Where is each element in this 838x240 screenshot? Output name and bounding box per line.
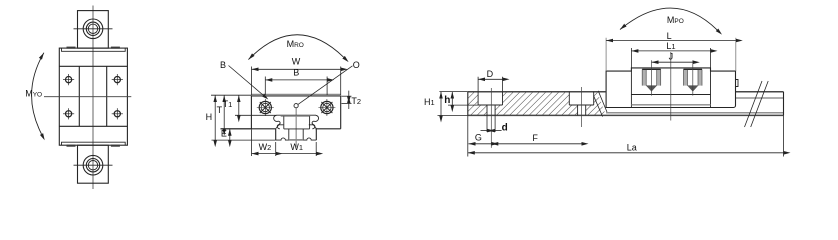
block outline: [251, 96, 340, 129]
L1 dim: [631, 48, 710, 68]
rail lower inner line: [606, 112, 783, 114]
tab bottom hole circles: [83, 155, 103, 175]
end cap boundary right: [710, 71, 712, 107]
rail end tab bottom: [78, 145, 109, 183]
hole 1 centerline: [490, 88, 492, 148]
svg-text:D: D: [487, 69, 494, 79]
svg-text:O: O: [353, 60, 360, 70]
grease nipple: [736, 80, 739, 87]
hole 2 centerline: [581, 87, 583, 127]
hole centerline 1: [651, 60, 653, 95]
leader O: [298, 66, 353, 105]
rail centerline: [295, 108, 297, 148]
rail groove wave left: [274, 115, 280, 129]
svg-text:E: E: [221, 129, 227, 139]
svg-text:B: B: [293, 68, 299, 78]
counterbore hole 1 outline: [478, 92, 502, 116]
tapped hole 2: [684, 69, 703, 91]
tab top crosshair: [74, 28, 113, 30]
mounting bolt hole right: [318, 99, 335, 116]
mounting bolt hole left: [257, 99, 274, 116]
rail left end face: [467, 92, 469, 116]
horizontal centerline: [44, 96, 131, 98]
block bottom right segment: [315, 128, 340, 130]
svg-text:H: H: [206, 112, 213, 122]
G dim: [469, 143, 492, 145]
F dim: [491, 143, 581, 145]
svg-text:F: F: [532, 133, 538, 143]
svg-text:W1: W1: [290, 142, 303, 152]
svg-text:L1: L1: [666, 41, 675, 51]
svg-text:MYO: MYO: [25, 89, 42, 99]
Mpo moment arc: [620, 8, 717, 30]
block bottom left segment: [221, 128, 276, 130]
rail end tab top: [78, 11, 109, 49]
bolt hole A: [63, 74, 74, 85]
rail edge right: [106, 66, 108, 126]
Mro moment arc: [248, 35, 343, 60]
La dim: [468, 116, 784, 157]
end plate line top: [59, 65, 127, 67]
leader B with arrow: [229, 66, 264, 96]
block top edge thick: [251, 93, 340, 95]
rail right end face: [783, 92, 785, 116]
rail bottom edge: [468, 114, 784, 116]
B dim: [265, 77, 327, 96]
rail edge left: [78, 66, 80, 126]
W dim: [252, 67, 341, 96]
bolt hole D: [112, 108, 123, 119]
svg-text:h: h: [444, 95, 450, 106]
rail top surface line: [276, 114, 316, 116]
block inner top line: [62, 48, 126, 51]
T dim: [223, 95, 225, 129]
svg-text:G: G: [475, 133, 482, 143]
L dim: [606, 38, 736, 71]
svg-text:W: W: [292, 56, 301, 66]
svg-text:L: L: [667, 31, 672, 41]
rail bottom line with notches: [276, 138, 317, 140]
svg-text:d: d: [502, 122, 508, 133]
T1 dim: [238, 95, 240, 115]
rail base left edge: [275, 129, 277, 141]
counterbore hole in section: [284, 116, 310, 129]
H dim: [214, 95, 216, 140]
svg-text:MRO: MRO: [287, 39, 304, 49]
body lower line: [631, 94, 710, 96]
Myo moment arc: [32, 53, 44, 134]
tapped hole 1: [642, 69, 661, 91]
d dim: [481, 115, 502, 132]
D dim: [478, 77, 502, 92]
svg-text:J: J: [669, 52, 674, 62]
bolt hole C: [63, 108, 74, 119]
tab bottom crosshair: [74, 164, 113, 166]
rail break lines right: [745, 81, 769, 127]
rail top edge: [468, 91, 784, 93]
T2 dim: [342, 91, 352, 109]
seal marks top edge: [67, 47, 120, 147]
svg-text:T1: T1: [223, 99, 233, 109]
carriage outline: [606, 68, 735, 108]
rail section hatching: [468, 92, 606, 116]
svg-text:H1: H1: [424, 97, 435, 107]
rail top thick band: [281, 115, 311, 117]
J dim: [652, 61, 693, 63]
section break lines left: [594, 91, 607, 117]
block inner bottom line: [62, 142, 126, 145]
rail shoulder chamfer left: [276, 125, 284, 129]
grease hole: [294, 104, 298, 108]
rail hole bottom thick: [289, 139, 303, 141]
hole centerline 2: [692, 60, 694, 95]
svg-text:MPO: MPO: [667, 15, 684, 25]
svg-text:W2: W2: [259, 142, 272, 152]
left side extension lines: [211, 95, 276, 140]
W2 W1 dims: [252, 130, 317, 157]
counterbore hole 2 outline: [569, 92, 593, 116]
rail shoulder chamfer right: [309, 125, 317, 129]
svg-text:La: La: [627, 143, 637, 153]
body skirt line: [631, 104, 710, 106]
svg-text:T2: T2: [351, 96, 361, 106]
carriage block outline: [59, 48, 127, 145]
H1 dim: [440, 92, 442, 116]
centerline vertical: [92, 6, 94, 190]
rail groove wave right: [312, 115, 318, 129]
rail base right edge: [315, 129, 317, 141]
end cap boundary left: [630, 71, 632, 107]
H1 h extension lines: [438, 92, 479, 116]
tab top hole circles: [83, 19, 103, 39]
rail bolt hole narrow part: [289, 129, 303, 140]
rail side inner line right: [736, 97, 784, 99]
h dim: [451, 92, 453, 106]
end plate line bottom: [59, 125, 127, 127]
svg-text:B: B: [220, 60, 226, 70]
carriage centerline: [670, 52, 672, 121]
bolt hole B: [112, 74, 123, 85]
E dim: [229, 129, 231, 140]
